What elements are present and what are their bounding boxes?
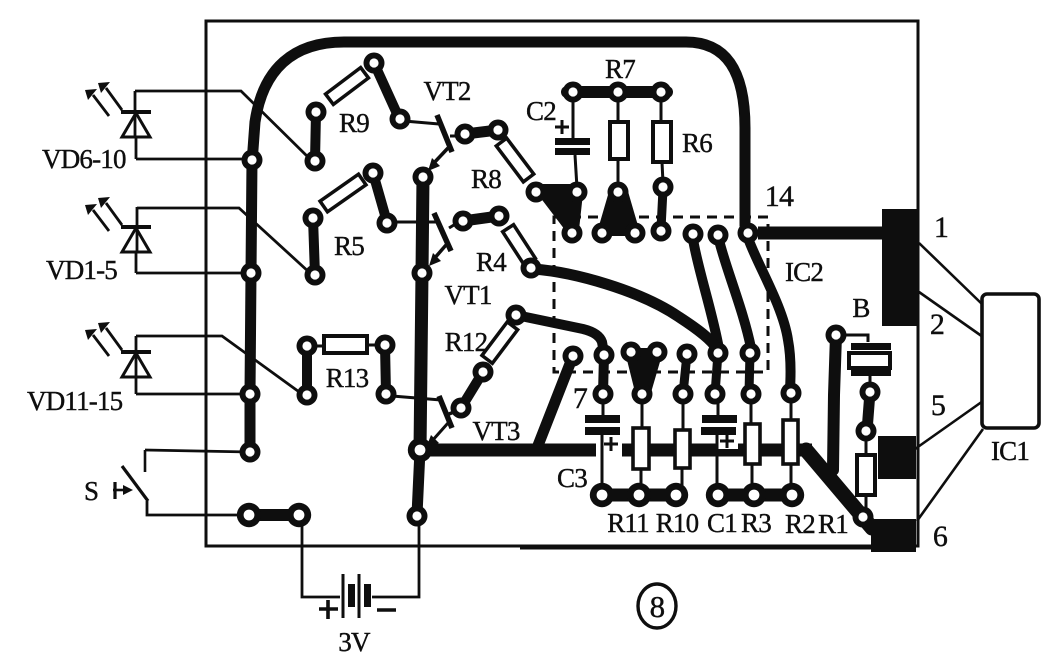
wire ground rail: [421, 444, 812, 457]
svg-text:VD1-5: VD1-5: [46, 255, 117, 285]
svg-text:14: 14: [765, 180, 794, 213]
wire R4 big curve: [533, 269, 717, 349]
wire triangle trace IC2 bottom: [624, 348, 664, 396]
node R5 pads: [363, 163, 384, 184]
svg-text:5: 5: [931, 389, 945, 422]
pin 6 black pad: [871, 519, 916, 552]
C2 plus sign: [555, 120, 569, 134]
capacitor C3: [596, 441, 622, 457]
svg-text:C1: C1: [707, 508, 737, 538]
resistor R9: [326, 68, 369, 105]
IC1 connection line pin2: [919, 292, 983, 337]
node IC2 top row pads: [562, 223, 583, 244]
transistor VT2: [404, 115, 462, 171]
node VT1 collector pads: [453, 211, 474, 232]
pin 1-2 black pad: [882, 209, 918, 326]
svg-text:VT1: VT1: [444, 280, 491, 310]
resistor R10: [682, 399, 683, 488]
wire bottom pad bus left: [602, 489, 676, 502]
node buzzer pads: [826, 325, 847, 346]
wire main vertical trace VT2 emitter down: [420, 177, 423, 450]
wire R13 left column: [302, 346, 312, 395]
wire S bottom to pad: [147, 501, 247, 515]
svg-text:R7: R7: [605, 54, 635, 84]
wire buzzer pad down to rail: [833, 335, 836, 470]
wire VD6-10 anode to pad: [135, 91, 310, 159]
svg-text:R8: R8: [471, 164, 501, 194]
svg-text:R11: R11: [607, 508, 649, 538]
wire VD11-15 anode to pad: [136, 336, 302, 394]
IC1 connection line pin5: [915, 401, 983, 449]
wire R12 lower bar: [461, 372, 483, 408]
LED VD11-15: [85, 322, 151, 394]
svg-text:C2: C2: [526, 96, 556, 126]
transistor VT1: [397, 213, 462, 266]
bottom border thick segment: [520, 545, 880, 550]
svg-text:R9: R9: [339, 108, 369, 138]
svg-text:VD11-15: VD11-15: [27, 386, 123, 416]
node R9 pads: [306, 102, 327, 123]
svg-text:R6: R6: [682, 128, 712, 158]
wire R5 to VT1 base: [373, 173, 387, 222]
node left trace pads: [242, 150, 263, 171]
wire R5 column trace: [313, 218, 315, 275]
svg-text:3V: 3V: [338, 627, 371, 657]
svg-text:VT2: VT2: [423, 76, 470, 106]
buzzer B: [842, 335, 868, 342]
battery + symbol: [319, 600, 338, 619]
wire R9 column trace: [315, 112, 316, 161]
wire VD11-15 cathode to pad: [136, 393, 245, 396]
battery right wire: [372, 515, 419, 597]
wire fan curve 3: [748, 238, 791, 389]
svg-text:1: 1: [934, 211, 948, 244]
wire R12 to IC2 pad: [516, 315, 604, 353]
svg-text:6: 6: [933, 520, 948, 553]
IC1 connection line pin6: [917, 429, 983, 521]
wire left vertical trace: [250, 160, 252, 452]
wire pad14 to pin1: [758, 227, 886, 240]
svg-text:R2: R2: [785, 509, 815, 539]
wire VD6-10 cathode to pad: [136, 158, 248, 161]
svg-text:C3: C3: [557, 463, 587, 493]
wire IC2 pad column: [603, 355, 604, 394]
PCB board outline: [206, 21, 918, 546]
node R13 pads: [297, 336, 318, 357]
IC1 connection line pin1: [919, 243, 983, 305]
IC2 dashed outline: [554, 217, 768, 372]
svg-text:R3: R3: [741, 508, 771, 538]
node rail corner pad: [408, 438, 432, 462]
capacitor C2: [555, 138, 590, 155]
svg-text:8: 8: [650, 589, 665, 624]
figure number 8: [638, 584, 676, 628]
transistor VT3: [392, 396, 459, 448]
node battery pad: [407, 506, 428, 527]
wire R6 bottom bar: [661, 189, 663, 229]
wire diagonal from pad7 to rail: [537, 356, 573, 448]
battery - symbol: [377, 608, 396, 612]
wire big top trace from left pad to pad 14: [252, 42, 747, 231]
IC1 package: [982, 294, 1039, 428]
wire bottom pad bus right: [718, 489, 792, 502]
switch S: [113, 450, 148, 501]
svg-text:R12: R12: [445, 327, 488, 357]
wire VT2 collector pair: [465, 130, 498, 134]
svg-text:IC1: IC1: [991, 436, 1029, 466]
resistor R13: [307, 345, 385, 346]
resistor R11: [641, 399, 642, 488]
wire S top to pad: [145, 450, 250, 452]
battery cell plates: [343, 574, 371, 618]
svg-text:B: B: [852, 293, 869, 323]
resistor R5: [320, 174, 366, 212]
node C2/R7/R6 bottom pads: [526, 182, 547, 203]
svg-text:7: 7: [573, 382, 588, 415]
wire main vertical to battery pad: [417, 450, 420, 515]
wire IC2 column bars: [683, 353, 750, 394]
wire S pad bus: [249, 509, 299, 521]
wire R13 right column: [385, 345, 386, 394]
resistor R6 body: [661, 97, 663, 183]
battery left wire: [302, 522, 340, 597]
resistor R2: [790, 398, 793, 488]
node IC2 bottom row pads: [563, 346, 584, 367]
svg-text:S: S: [84, 476, 98, 506]
resistor R8: [496, 138, 533, 182]
svg-text:R4: R4: [476, 247, 507, 277]
wire VT1 collector pair: [463, 216, 499, 221]
wire triangle trace under R7: [596, 188, 641, 236]
resistor R4: [503, 225, 536, 266]
svg-text:VT3: VT3: [472, 416, 519, 446]
wire VD1-5 cathode to pad: [136, 272, 246, 275]
resistor R1: [865, 436, 868, 512]
svg-text:R5: R5: [334, 231, 364, 261]
wire VD1-5 anode to pad: [137, 208, 310, 273]
svg-text:R10: R10: [656, 508, 699, 538]
wire rail diagonal to pin6: [806, 450, 872, 528]
capacitor C1: [716, 441, 738, 449]
svg-text:IC2: IC2: [785, 257, 823, 287]
wire R9 to VT2 base: [374, 63, 399, 118]
C3 plus sign: [604, 437, 618, 451]
node VT2 pads: [390, 109, 411, 130]
wire triangle trace R8/C2 junction: [530, 184, 584, 230]
resistor R12: [482, 322, 518, 363]
wire buzzer lower column: [867, 392, 870, 431]
wire fan curve 1: [693, 239, 719, 349]
LED VD1-5: [85, 197, 151, 273]
node R12 pads: [506, 305, 527, 326]
pin 5 black pad: [878, 436, 916, 479]
node switch pads: [237, 503, 261, 527]
svg-text:R1: R1: [818, 509, 848, 539]
wire R7 top bus: [567, 86, 667, 98]
C1 plus sign: [720, 434, 734, 448]
resistor R7 body: [617, 97, 620, 187]
wire fan curve 2: [719, 240, 751, 348]
node R4 pad: [521, 258, 542, 279]
node C2/R7/R6 top pads: [563, 82, 584, 103]
node component bottom pads: [590, 483, 614, 507]
svg-text:VD6-10: VD6-10: [42, 144, 126, 174]
svg-text:2: 2: [930, 308, 944, 341]
node component top pads: [593, 384, 614, 405]
svg-text:R13: R13: [326, 363, 369, 393]
resistor R3: [751, 399, 752, 488]
LED VD6-10: [85, 82, 151, 159]
